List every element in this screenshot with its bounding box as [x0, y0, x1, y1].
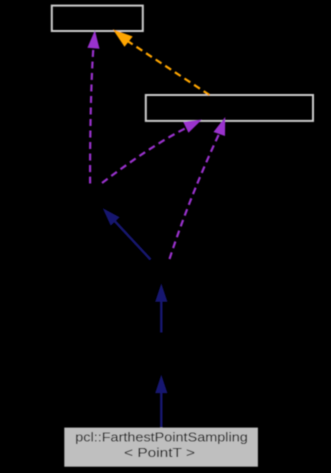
inheritance edge: main node to invisible node3 (solid navy, vertical) [155, 375, 167, 428]
main node: pcl::FarthestPointSampling< PointT > [64, 428, 258, 467]
inheritance edge: invisible node2 to invisible node1 (solid navy, diagonal) [103, 208, 151, 259]
usage edge: invisible node2 to box B (dashed purple, straight) [170, 117, 226, 259]
inheritance edge: invisible node3 to invisible node2 (solid navy, vertical) [155, 284, 167, 333]
svg-text:< PointT >: < PointT > [124, 445, 195, 460]
node box B (top-right, empty label) [146, 95, 313, 121]
svg-text:pcl::FarthestPointSampling: pcl::FarthestPointSampling [75, 430, 248, 445]
template relation edge: box B to box A (dashed orange) [113, 29, 210, 95]
usage edge: invisible node1 to box B (dashed purple, slight curve) [102, 120, 202, 184]
usage edge: invisible node1 to box A (dashed purple, curved) [87, 30, 99, 183]
node box A (top-left, empty label) [52, 6, 143, 31]
